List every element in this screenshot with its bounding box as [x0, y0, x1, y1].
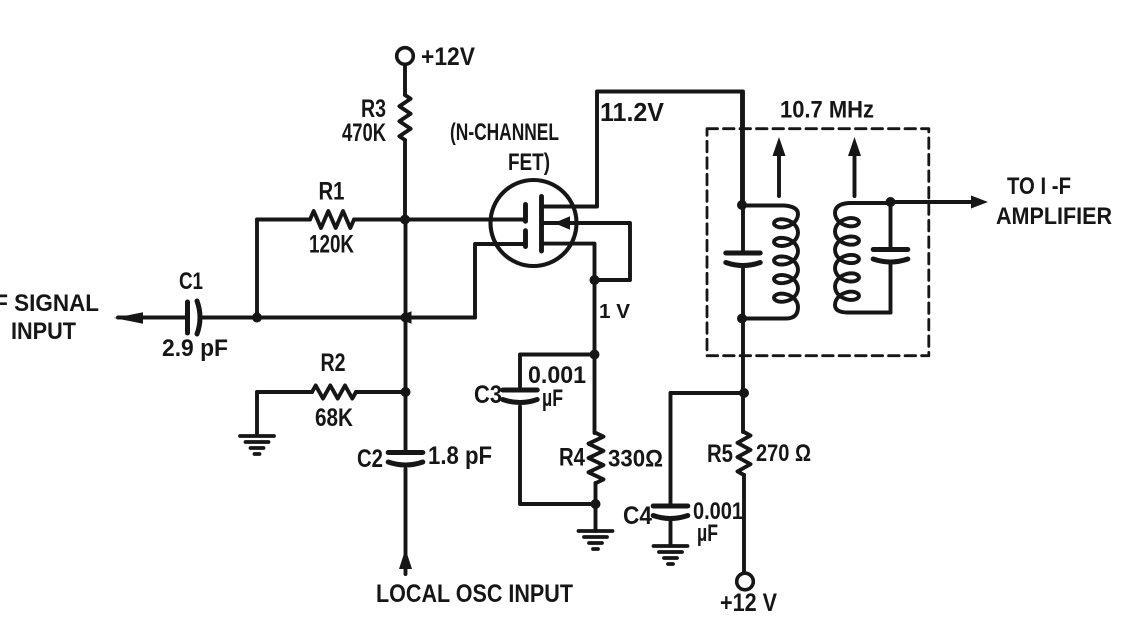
svg-text:1 V: 1 V [599, 301, 631, 323]
svg-text:LOCAL OSC INPUT: LOCAL OSC INPUT [376, 580, 573, 608]
svg-text:10.7 MHz: 10.7 MHz [780, 97, 874, 124]
svg-text:120K: 120K [309, 231, 354, 259]
svg-text:270 Ω: 270 Ω [756, 440, 811, 467]
svg-text:R1: R1 [319, 178, 345, 206]
svg-text:68K: 68K [315, 404, 353, 432]
svg-text:FET): FET) [508, 149, 550, 176]
svg-text:1.8 pF: 1.8 pF [428, 442, 492, 470]
svg-text:C1: C1 [179, 268, 203, 295]
svg-text:AMPLIFIER: AMPLIFIER [996, 203, 1112, 230]
svg-text:R5: R5 [707, 440, 733, 468]
svg-text:µF: µF [542, 385, 563, 412]
svg-text:+12 V: +12 V [720, 589, 777, 615]
svg-text:C4: C4 [623, 502, 652, 530]
svg-text:R2: R2 [321, 349, 346, 377]
svg-text:RF SIGNAL: RF SIGNAL [0, 290, 99, 317]
svg-text:330Ω: 330Ω [608, 446, 663, 473]
svg-text:2.9 pF: 2.9 pF [162, 335, 228, 362]
svg-text:TO I -F: TO I -F [1007, 173, 1071, 200]
svg-text:C3: C3 [474, 381, 502, 409]
svg-text:+12V: +12V [421, 43, 475, 71]
svg-text:11.2V: 11.2V [600, 97, 665, 127]
svg-text:µF: µF [697, 520, 718, 547]
svg-text:R4: R4 [559, 444, 585, 472]
svg-text:470K: 470K [342, 119, 386, 147]
svg-text:INPUT: INPUT [11, 318, 76, 345]
svg-text:(N-CHANNEL: (N-CHANNEL [450, 119, 559, 146]
svg-text:C2: C2 [357, 445, 383, 473]
